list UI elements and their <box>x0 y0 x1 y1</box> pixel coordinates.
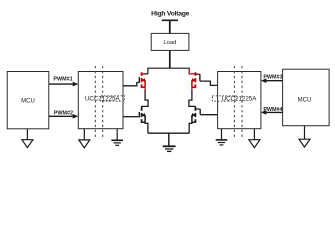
ground triangle MCU left <box>22 140 33 148</box>
gate electrode Q1 <box>138 77 140 83</box>
ground triangle MCU right <box>299 139 310 147</box>
wire U2 to analog ground <box>253 129 255 140</box>
wire gate driver U1 to Q3 gate <box>123 116 139 118</box>
wire Q4 source to bottom rail <box>189 122 192 133</box>
gate driver U2 box <box>218 72 261 129</box>
wire MCU left to ground <box>26 129 28 140</box>
wire gate driver U2 to Q4 gate <box>200 114 218 116</box>
wire drain elbow Q1 (red) <box>142 73 145 75</box>
ground bars U2 <box>216 140 228 145</box>
wire MCU right to ground <box>304 126 306 139</box>
wire load to bridge top rail <box>169 50 171 68</box>
gate electrode Q2 <box>199 74 201 81</box>
transistor Q1 (high-side left, red) <box>142 72 146 88</box>
svg-text:UCC21225A: UCC21225A <box>222 96 258 103</box>
transistor Q2 (high-side right, red) <box>192 72 196 88</box>
svg-text:Load: Load <box>163 40 176 46</box>
wire Q2 source to Q4 drain (right phase leg) <box>189 90 195 108</box>
signal PWM#3 <box>261 75 283 83</box>
transistor Q4 (low-side right) <box>192 107 196 123</box>
gate lead stub Q4 <box>195 108 200 110</box>
svg-text:High Voltage: High Voltage <box>151 10 190 17</box>
wire Q3 source to bottom rail <box>145 122 148 133</box>
wire U1 to analog ground <box>83 129 85 140</box>
transistor Q3 (low-side left) <box>142 107 146 123</box>
svg-text:MCU: MCU <box>21 98 35 104</box>
gate electrode Q3 <box>138 112 140 117</box>
MCU box right <box>283 69 330 126</box>
svg-text:PWM#1: PWM#1 <box>53 77 72 83</box>
ground triangle U2 <box>249 140 260 148</box>
svg-text:MCU: MCU <box>298 98 312 104</box>
ground bars U1 <box>111 140 123 145</box>
gate driver U1 box <box>78 72 123 129</box>
wire drain elbow Q2 (red) <box>189 69 195 74</box>
wire U2 to power ground <box>221 129 223 140</box>
isolation barrier dashed lines U2 <box>234 66 242 138</box>
wire bottom rail <box>148 132 189 134</box>
gate electrode Q4 <box>199 109 201 114</box>
wire Q1 source to Q3 drain (left phase leg) <box>142 90 148 108</box>
signal PWM#1 <box>49 77 79 87</box>
isolation barrier dashed lines U1 <box>95 66 102 138</box>
wire Q1 source tail (red) <box>144 87 146 89</box>
load box <box>151 33 189 50</box>
wire gate driver U2 to Q2 gate <box>200 81 218 85</box>
dashed highlight rectangle U2 output stage <box>212 96 236 101</box>
wire U1 to power ground <box>116 129 118 141</box>
wire bottom rail to ground <box>168 133 170 146</box>
signal PWM#4 <box>261 107 283 115</box>
svg-text:PWM#2: PWM#2 <box>54 110 73 116</box>
MCU box left <box>7 72 49 129</box>
ground (power stage) <box>163 146 176 151</box>
signal PWM#2 <box>49 110 79 118</box>
ground triangle U1 <box>79 140 90 148</box>
high-voltage supply bar symbol <box>162 20 178 33</box>
dashed highlight rectangle U1 output stage <box>101 96 125 101</box>
gate lead stub Q2 <box>195 73 200 75</box>
wire gate driver U1 to Q1 gate <box>123 83 139 86</box>
wire top rail (HV bus) <box>148 68 189 74</box>
wire Q2 source tail (red) <box>191 87 193 89</box>
